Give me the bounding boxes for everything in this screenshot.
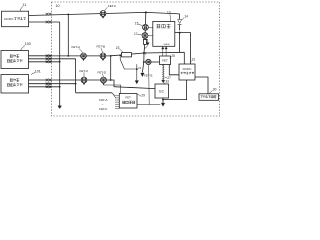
charger box 13 bbox=[153, 21, 175, 46]
svg-text:FET-F: FET-F bbox=[99, 107, 107, 111]
label 100 bbox=[21, 42, 31, 50]
transistor FET-C bbox=[81, 77, 87, 85]
wire: adapter output + (top rail) bbox=[29, 12, 180, 15]
transistor 17 bbox=[142, 33, 148, 39]
svg-text:SHDN: SHDN bbox=[164, 44, 170, 46]
transistor FET-E bbox=[146, 59, 151, 66]
transistor FET-D bbox=[101, 77, 107, 85]
label FET-B bbox=[97, 45, 106, 53]
drive circuit left pin stubs bbox=[115, 96, 119, 109]
wire: ground bus vertical V1 bbox=[59, 22, 61, 106]
junction dot monitor node bbox=[136, 68, 138, 70]
wire: pack101 negative bbox=[29, 86, 60, 88]
label 13 bbox=[167, 10, 171, 21]
connector X pack101 negative bbox=[46, 86, 52, 89]
svg-text:101: 101 bbox=[35, 69, 41, 73]
label 25 bbox=[170, 54, 175, 58]
svg-text:AC/DC: AC/DC bbox=[4, 17, 14, 21]
dashed enclosure 10 (main unit) bbox=[52, 2, 220, 116]
label 101 bbox=[31, 69, 41, 74]
AC/DC adapter box 11 bbox=[2, 11, 29, 27]
wire: adapter return bbox=[29, 21, 60, 23]
svg-text:13: 13 bbox=[167, 10, 171, 14]
battery pack box 100 bbox=[1, 51, 29, 69]
junction dot sense resistor to row1 bbox=[143, 52, 145, 54]
label 29 bbox=[137, 94, 145, 98]
ground arrow at bottom of V1 bbox=[58, 106, 62, 109]
wire diagonal fan-in to drive circuit pins bbox=[112, 93, 116, 98]
svg-text:FET: FET bbox=[162, 59, 168, 63]
label 33 bbox=[163, 80, 169, 84]
junction dot V2 top bbox=[67, 14, 69, 16]
label 11 bbox=[20, 3, 26, 11]
svg-text:14: 14 bbox=[184, 14, 188, 18]
junction dot row1 node bbox=[110, 55, 112, 57]
battery pack box 101 bbox=[1, 75, 29, 94]
gate wire FET15 to charger bbox=[148, 27, 152, 29]
wire: charger FET chain vertical bbox=[144, 12, 146, 53]
svg-text:19: 19 bbox=[143, 51, 147, 55]
label 15 bbox=[135, 21, 143, 25]
label FET-C bbox=[80, 69, 89, 77]
svg-text:FET: FET bbox=[126, 96, 132, 100]
connector X pack101 row2 bbox=[46, 79, 52, 82]
connector X marks on adapter + wire bbox=[46, 13, 52, 16]
svg-text:100: 100 bbox=[25, 42, 31, 46]
svg-text:EC: EC bbox=[159, 90, 164, 94]
junction dot branch split bbox=[143, 61, 145, 63]
junction dot row2 node bbox=[110, 79, 112, 81]
resistor 23 bbox=[122, 53, 132, 57]
svg-text:11: 11 bbox=[23, 3, 27, 7]
wire: sense bus vertical V3 bbox=[75, 59, 77, 93]
note FET-A to FET-F bbox=[99, 98, 107, 111]
svg-text:29: 29 bbox=[141, 94, 145, 98]
ground arrow on shunt branch bbox=[141, 73, 144, 77]
signal bus 27 FET box to EC bbox=[162, 65, 165, 83]
DC/DC converter box 31 bbox=[179, 64, 195, 80]
label FET-F (top) bbox=[105, 4, 117, 11]
transistor 15 bbox=[143, 24, 149, 30]
connector X pack101 middle bbox=[46, 82, 52, 85]
connector X pack100 negative bbox=[46, 61, 52, 64]
connector X marks on adapter return bbox=[46, 21, 52, 24]
label 27 bbox=[165, 76, 171, 80]
svg-text:33: 33 bbox=[165, 80, 169, 84]
wire: DC/DC output to system load bbox=[195, 77, 208, 94]
wire: shunt branch from row1 node bbox=[142, 53, 144, 72]
transistor FET-A bbox=[81, 53, 87, 61]
label 31 bbox=[191, 58, 196, 63]
junction dot pack100 negative to V1 bbox=[59, 61, 61, 63]
wire: pack100 positive (row1) bbox=[29, 55, 52, 57]
svg-text:10: 10 bbox=[56, 4, 60, 8]
label FET-A bbox=[72, 45, 83, 53]
diode 14 bbox=[178, 14, 182, 31]
wire: adapter feed vertical V2 bbox=[67, 14, 69, 56]
wire: pack101 middle sense bbox=[29, 83, 76, 85]
junction dot EC bottom node bbox=[162, 99, 164, 101]
gate wire FET17 to charger bbox=[148, 35, 153, 37]
svg-text:30: 30 bbox=[213, 87, 217, 91]
svg-text:23: 23 bbox=[116, 46, 120, 50]
FET drive circuit box 29 bbox=[119, 94, 137, 109]
EC bottom pin with ground arrow bbox=[161, 98, 164, 107]
svg-text:15: 15 bbox=[135, 21, 139, 25]
svg-text:FET-F: FET-F bbox=[108, 4, 116, 8]
wire: DC/DC bottom loop to EC bottom pin bbox=[163, 80, 187, 100]
wire: FET box output to DC/DC input bbox=[169, 65, 179, 75]
svg-text:21: 21 bbox=[138, 66, 142, 70]
junction dot top rail to charger FET chain bbox=[145, 11, 147, 13]
wire: branch to FET-E and FET box bbox=[144, 61, 160, 63]
wire: FET-E gate to drive bus bbox=[148, 66, 151, 105]
transistor FET-F on adapter rail bbox=[100, 11, 106, 19]
junction dot pack101 negative to V1 bbox=[59, 86, 61, 88]
junction dot pack101 middle to V3 bbox=[75, 83, 77, 85]
label 30 bbox=[210, 87, 217, 93]
wire: pack100 negative bbox=[29, 61, 60, 63]
svg-text:FET-B: FET-B bbox=[97, 45, 106, 49]
svg-text:DC/DC: DC/DC bbox=[183, 67, 192, 71]
svg-text:FET-C: FET-C bbox=[80, 69, 89, 73]
transistor FET-B bbox=[100, 53, 106, 61]
wire: drive circuit output right bbox=[137, 104, 160, 106]
wire: pack100 middle sense bbox=[29, 58, 76, 60]
wire: bus to FET drive circuit bbox=[76, 92, 112, 94]
junction dot V2 bottom on row1 bbox=[67, 55, 69, 57]
connector X pack100 middle bbox=[46, 58, 52, 61]
svg-text:31: 31 bbox=[192, 58, 196, 62]
wire: row1 node down to row2 node bbox=[110, 56, 112, 80]
svg-text:FET-A: FET-A bbox=[99, 98, 107, 102]
connector X pack100 row1 bbox=[46, 55, 52, 58]
charger output arrow 19 bbox=[143, 39, 149, 48]
svg-text:25: 25 bbox=[171, 54, 175, 58]
wire: row2 node to EC bbox=[111, 80, 155, 89]
label FET-D bbox=[98, 70, 107, 77]
wire: FET-D gate to drive circuit bbox=[104, 85, 121, 94]
wire: pack101 positive (row2) bbox=[29, 79, 111, 81]
system load box 30 bbox=[199, 94, 219, 101]
monitor stub with down arrow bbox=[136, 64, 138, 81]
label 23 bbox=[116, 46, 123, 53]
label 14 bbox=[182, 14, 188, 20]
wire: row1 tap slant to monitor arrow bbox=[120, 55, 137, 69]
wire: charger output to system node bbox=[175, 32, 180, 34]
junction dot row1 below resistor 23 bbox=[119, 55, 121, 57]
svg-text:FET-D: FET-D bbox=[98, 70, 107, 74]
wire: system node to DC/DC input top bbox=[180, 33, 191, 64]
FET box 25 bbox=[160, 56, 171, 65]
svg-text:17: 17 bbox=[134, 32, 138, 36]
sense resistor 21 bbox=[144, 39, 147, 44]
svg-text:FET-E: FET-E bbox=[144, 74, 153, 78]
control lines FET box to charger with up arrows bbox=[162, 47, 168, 56]
svg-text:FET-A: FET-A bbox=[72, 45, 81, 49]
svg-text:~: ~ bbox=[102, 102, 104, 106]
label 17 bbox=[134, 32, 142, 36]
junction dot system node bbox=[179, 32, 181, 34]
EC box 33 bbox=[155, 84, 169, 98]
